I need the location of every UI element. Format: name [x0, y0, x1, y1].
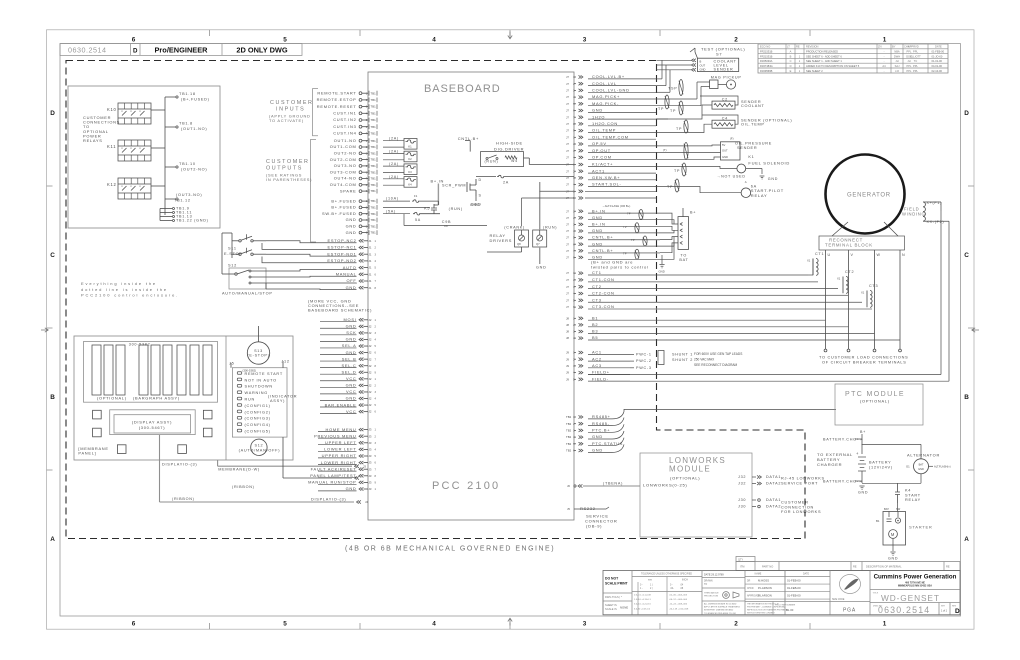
- svg-text:FOR 600V USE GEN TAP LEADS: FOR 600V USE GEN TAP LEADS: [694, 352, 742, 356]
- svg-text:GND: GND: [346, 217, 357, 222]
- svg-text:GND: GND: [659, 270, 665, 274]
- svg-text:OUT4-COM: OUT4-COM: [330, 182, 357, 187]
- baseboard outline: [368, 72, 574, 520]
- svg-text:→ALT.FLASH (OR B+): →ALT.FLASH (OR B+): [602, 204, 630, 208]
- svg-text:JH: JH: [907, 59, 910, 63]
- svg-text:(CONFIG2): (CONFIG2): [245, 410, 271, 414]
- svg-text:AC1: AC1: [592, 350, 602, 355]
- svg-text:.24-1.18 +.010-.008: .24-1.18 +.010-.008: [669, 608, 689, 610]
- svg-text:GND: GND: [722, 155, 728, 159]
- twisted pair TP mag: [665, 95, 669, 109]
- svg-text:SENDER: SENDER: [714, 68, 734, 72]
- wire HOME MENU J3.1: [326, 427, 377, 432]
- svg-text:DWG TOLS | *: DWG TOLS | *: [605, 595, 622, 599]
- svg-text:APPRVD: APPRVD: [908, 45, 919, 49]
- svg-text:SEE SHEET 1 - ADD SHEET 1: SEE SHEET 1 - ADD SHEET 1: [806, 59, 842, 63]
- wire CUST.IN4 TB1.7: [333, 131, 377, 136]
- svg-text:(INDICATOR: (INDICATOR: [268, 395, 297, 399]
- svg-text:300-5382: 300-5382: [129, 343, 151, 347]
- svg-text:PPL: PPL: [913, 69, 918, 73]
- svg-text:B: B: [790, 54, 792, 58]
- svg-text:B+: B+: [690, 211, 696, 215]
- svg-text:E-STOP: E-STOP: [224, 252, 243, 256]
- svg-text:SCK: SCK: [346, 330, 356, 335]
- svg-text:SHUTDOWN: SHUTDOWN: [245, 385, 273, 389]
- svg-text:0 -: 0 -: [640, 585, 643, 587]
- wire PREVIOUS MENU J3.2: [314, 433, 376, 438]
- svg-text:SCR_PWM: SCR_PWM: [442, 184, 466, 188]
- wire SW.B+.FUSED TB1.3: [322, 211, 377, 216]
- svg-text:RJ-45 LONWORKS: RJ-45 LONWORKS: [781, 477, 825, 481]
- svg-text:TP: TP: [658, 107, 664, 111]
- svg-text:B+: B+: [860, 430, 866, 434]
- svg-text:TB1: TB1: [371, 111, 377, 115]
- svg-text:J3: J3: [369, 428, 372, 432]
- svg-text:ESTOP-NC1: ESTOP-NC1: [328, 245, 357, 250]
- svg-text:MAG.PICK-: MAG.PICK-: [592, 101, 619, 106]
- svg-text:GND: GND: [918, 467, 924, 471]
- svg-text:REMOTE START: REMOTE START: [245, 372, 283, 376]
- wires coolant rows to sender: [656, 60, 670, 92]
- svg-text:(2A): (2A): [389, 175, 399, 179]
- svg-text:TC: TC: [914, 59, 918, 63]
- sheet inner border: [60, 44, 961, 616]
- wire relay bus: [151, 97, 176, 221]
- wire CT3-CON J7.6: [566, 304, 615, 309]
- svg-text:K4: K4: [408, 183, 412, 187]
- svg-text:TB1: TB1: [371, 118, 377, 122]
- svg-text:(10A): (10A): [386, 197, 399, 201]
- svg-text:J2: J2: [369, 403, 372, 407]
- svg-text:PTC MODULE: PTC MODULE: [845, 391, 905, 398]
- wire MANUAL J1.6: [336, 272, 377, 277]
- svg-text:X1: X1: [807, 259, 811, 263]
- drawing number header box: [60, 44, 302, 56]
- svg-text:1H2O: 1H2O: [592, 114, 605, 119]
- svg-text:REVISION: REVISION: [806, 45, 819, 49]
- bargraph assembly box: [84, 342, 218, 403]
- svg-text:J7: J7: [566, 196, 569, 200]
- relay K11: [107, 140, 151, 161]
- svg-text:J2: J2: [369, 410, 372, 414]
- svg-text:OIL.TEMP: OIL.TEMP: [592, 128, 616, 133]
- svg-text:SPARE: SPARE: [340, 188, 357, 193]
- svg-text:TB1.10: TB1.10: [179, 162, 196, 166]
- wires mag pickup: [656, 82, 710, 106]
- svg-text:B1: B1: [592, 315, 598, 320]
- svg-text:J4: J4: [365, 500, 368, 504]
- twisted pair TP k1: [682, 163, 686, 176]
- lonworks J30 data pins: [738, 498, 821, 514]
- wire GEN.XW.B+ J7.3: [566, 175, 656, 180]
- svg-text:4: 4: [432, 620, 436, 627]
- svg-text:PPL: PPL: [907, 50, 912, 54]
- svg-text:GND: GND: [346, 396, 357, 401]
- svg-text:J9: J9: [566, 364, 569, 368]
- svg-text:GND: GND: [592, 448, 603, 453]
- svg-text:CUST.IN2: CUST.IN2: [333, 117, 356, 122]
- svg-text:TB1: TB1: [371, 91, 377, 95]
- zone numbers top: [132, 36, 887, 43]
- svg-text:GND: GND: [858, 491, 868, 495]
- wire REMOTE.START TB1.1: [317, 90, 377, 95]
- svg-text:TB1.22 (GND): TB1.22 (GND): [176, 219, 209, 223]
- shunt links: [658, 351, 693, 365]
- svg-text:dotted line is inside the: dotted line is inside the: [81, 287, 168, 292]
- svg-text:DATA1: DATA1: [766, 498, 781, 502]
- wire PANEL LAMP/TEST J3.8: [310, 473, 376, 478]
- svg-text:6: 6: [132, 36, 136, 43]
- revision table: [758, 44, 948, 73]
- svg-text:J7: J7: [566, 82, 569, 86]
- svg-text:CT3: CT3: [592, 297, 602, 302]
- wire MAG.PICK+ J7.4: [566, 94, 656, 99]
- svg-text:TB1.12: TB1.12: [174, 199, 191, 203]
- wire AC3 J9.3: [566, 363, 630, 368]
- connector J5 RS232 service: [567, 506, 618, 528]
- svg-text:OF CIRCUIT BREAKER TERMINALS: OF CIRCUIT BREAKER TERMINALS: [822, 360, 907, 364]
- svg-text:DATE: DATE: [803, 573, 809, 576]
- wire GND J2.2: [346, 324, 377, 329]
- svg-text:OUT: OUT: [722, 149, 728, 153]
- svg-text:J7: J7: [566, 89, 569, 93]
- svg-text:SEL.A: SEL.A: [342, 343, 357, 348]
- svg-text:X+(F1): X+(F1): [927, 201, 943, 205]
- labels PWC: [630, 353, 652, 370]
- svg-text:(CONFIG1): (CONFIG1): [245, 404, 271, 408]
- svg-text:B2: B2: [592, 322, 598, 327]
- signatures cell: [745, 571, 870, 615]
- svg-text:WD-GENSET: WD-GENSET: [881, 593, 940, 603]
- wire estop feed: [221, 233, 223, 274]
- svg-text:TB1: TB1: [371, 125, 377, 129]
- switch S13 E-STOP: [247, 342, 269, 364]
- wire B+.IN J7.1: [566, 208, 668, 213]
- svg-text:PPL: PPL: [907, 69, 912, 73]
- svg-text:TP: TP: [676, 127, 682, 131]
- wire pin J7.5: [566, 189, 656, 193]
- fuel solenoid K1: [656, 155, 790, 181]
- svg-text:MAG.PICK+: MAG.PICK+: [592, 94, 620, 99]
- title block: [603, 571, 960, 615]
- svg-text:(BARGRAPH ASSY): (BARGRAPH ASSY): [133, 396, 180, 401]
- svg-text:J7: J7: [566, 102, 569, 106]
- svg-text:GND: GND: [346, 350, 357, 355]
- svg-text:THIRD ANGLE: THIRD ANGLE: [704, 592, 719, 595]
- svg-text:SAJ: SAJ: [895, 64, 900, 68]
- svg-text:WARNING: WARNING: [245, 391, 268, 395]
- wire SEL.D J2.9: [342, 369, 377, 374]
- wires TB2 bundle to PTC module: [612, 409, 836, 452]
- svg-text:V: V: [851, 253, 854, 257]
- svg-text:.04-: .04-: [670, 588, 674, 590]
- svg-text:J32: J32: [738, 475, 746, 479]
- wire UPPER RIGHT J3.5: [322, 453, 377, 458]
- note: everything inside dotted line: [81, 281, 179, 298]
- svg-text:RS232: RS232: [580, 506, 596, 511]
- svg-text:K4: K4: [905, 489, 911, 493]
- svg-text:DRAWN: DRAWN: [704, 580, 713, 583]
- svg-text:(CONFIG5): (CONFIG5): [245, 430, 271, 434]
- svg-text:A: A: [964, 536, 969, 543]
- svg-text:250 VAC MAX: 250 VAC MAX: [694, 357, 715, 361]
- svg-text:SEL.C: SEL.C: [342, 363, 357, 368]
- wire OP.COM J7.13: [566, 155, 656, 160]
- svg-text:PWC-3: PWC-3: [636, 366, 652, 370]
- svg-text:OUT3-NO: OUT3-NO: [334, 163, 357, 168]
- svg-text:TO CUSTOMER LOAD CONNECTIONS: TO CUSTOMER LOAD CONNECTIONS: [819, 356, 908, 360]
- svg-text:LOWER RIGHT: LOWER RIGHT: [321, 460, 357, 465]
- svg-text:NBA: NBA: [894, 50, 900, 54]
- svg-text:N: N: [902, 253, 905, 257]
- svg-text:J7: J7: [566, 285, 569, 289]
- svg-text:1 |: 1 |: [650, 585, 653, 587]
- svg-text:GND: GND: [346, 383, 357, 388]
- svg-text:Q7: Q7: [536, 242, 540, 246]
- svg-text:(E-STOP): (E-STOP): [247, 353, 269, 357]
- wire GND J7.6: [566, 241, 668, 246]
- lonworks J22 data pins: [738, 475, 825, 486]
- wire ESTOP-NC1 J1.2: [328, 245, 377, 250]
- svg-text:-: -: [884, 51, 885, 54]
- wire SEL.B J2.7: [342, 356, 377, 361]
- svg-text:TOLERANCES PER ASME Y14.5M: TOLERANCES PER ASME Y14.5M: [704, 612, 736, 615]
- wires membrane to baseboard: [160, 326, 369, 504]
- wire COOL.LVL.B+ J7.1: [566, 74, 656, 79]
- svg-text:(2A): (2A): [389, 137, 399, 141]
- svg-text:Cummins Power Generation: Cummins Power Generation: [874, 574, 957, 581]
- svg-text:J9: J9: [566, 357, 569, 361]
- svg-text:CHARGER: CHARGER: [817, 462, 842, 467]
- svg-text:E: E: [790, 69, 792, 73]
- svg-text:J9: J9: [566, 377, 569, 381]
- svg-text:TB1: TB1: [371, 199, 377, 203]
- svg-text:01-01-00: 01-01-00: [932, 59, 943, 63]
- svg-text:(RIBBON): (RIBBON): [232, 485, 255, 489]
- wire REMOTE.RESET TB1.3: [317, 104, 377, 109]
- svg-text:NAME: NAME: [755, 573, 762, 576]
- zone numbers bottom: [132, 620, 887, 627]
- svg-text:PPL: PPL: [913, 50, 918, 54]
- svg-text:X1: X1: [861, 291, 865, 295]
- svg-text:DIG.DRIVER: DIG.DRIVER: [494, 147, 524, 152]
- svg-text:VCC: VCC: [346, 389, 356, 394]
- svg-text:OUT2-COM: OUT2-COM: [330, 157, 357, 162]
- svg-text:GND: GND: [888, 557, 898, 561]
- svg-text:TERMINAL BLOCK: TERMINAL BLOCK: [825, 243, 873, 248]
- wire OUT4-NO TB1.7: [334, 176, 377, 181]
- svg-text:K11: K11: [107, 144, 116, 149]
- svg-text:J7: J7: [566, 223, 569, 227]
- wire GND J2.6: [346, 350, 377, 355]
- svg-text:02-10-00: 02-10-00: [932, 69, 943, 73]
- svg-text:TB1: TB1: [371, 224, 377, 228]
- svg-text:J30: J30: [738, 498, 746, 502]
- svg-text:CUST.IN4: CUST.IN4: [333, 131, 356, 136]
- svg-text:SENDER: SENDER: [737, 146, 757, 150]
- wire SEL.C J2.8: [342, 363, 377, 368]
- svg-text:TP: TP: [667, 185, 673, 189]
- svg-text:J8: J8: [566, 316, 569, 320]
- svg-text:W4: W4: [511, 159, 518, 163]
- svg-text:PPL: PPL: [913, 64, 918, 68]
- svg-text:J3: J3: [363, 464, 366, 468]
- wire SCK J2.3: [346, 330, 376, 335]
- coolant level sender U2: [657, 58, 739, 71]
- svg-text:SEE SHEET 2: SEE SHEET 2: [806, 69, 823, 73]
- svg-text:DATA2: DATA2: [766, 505, 781, 509]
- wire GND TB1.5: [346, 224, 377, 229]
- svg-text:MAG PICKUP: MAG PICKUP: [711, 76, 742, 80]
- svg-text:TB1: TB1: [371, 206, 377, 210]
- svg-text:.02-.06 +.004-.003: .02-.06 +.004-.003: [669, 595, 688, 597]
- svg-text:MODULE: MODULE: [669, 465, 711, 474]
- svg-text:J7: J7: [566, 122, 569, 126]
- svg-text:ESTOP-NO1: ESTOP-NO1: [327, 251, 356, 256]
- svg-text:CNTL.B+: CNTL.B+: [592, 248, 613, 253]
- svg-text:RS485-: RS485-: [592, 421, 610, 426]
- wire OUT2-COM TB1.4: [330, 157, 377, 162]
- svg-text:J1: J1: [369, 239, 372, 243]
- svg-text:J2: J2: [369, 357, 372, 361]
- svg-text:K1: K1: [748, 155, 754, 159]
- svg-text:BAT: BAT: [679, 258, 688, 262]
- svg-text:CONNECTION: CONNECTION: [781, 505, 814, 509]
- customer inputs bracket: [313, 89, 319, 136]
- svg-text:J3: J3: [369, 454, 372, 458]
- battery B1: [855, 451, 893, 495]
- svg-text:C: C: [50, 252, 55, 259]
- svg-text:J7: J7: [566, 229, 569, 233]
- date / projection cell: [702, 574, 745, 615]
- wire CT2 J7.3: [566, 284, 602, 289]
- svg-text:(OUT2-NO): (OUT2-NO): [181, 168, 207, 172]
- starter motor: [876, 503, 933, 561]
- svg-text:SEE RECONNECT DIAGRAM: SEE RECONNECT DIAGRAM: [694, 363, 738, 367]
- wire LOWER LEFT J3.4: [324, 447, 376, 452]
- svg-text:D: D: [50, 110, 55, 117]
- svg-text:GND: GND: [592, 434, 603, 439]
- wire ESTOP-NO2 J1.4: [327, 258, 376, 263]
- svg-text:ADDED K10 TO DESCRIPTION ON SH: ADDED K10 TO DESCRIPTION ON SHEET 5: [806, 64, 860, 68]
- svg-text:J7: J7: [566, 183, 569, 187]
- svg-text:BASEBOARD SCHEMATIC): BASEBOARD SCHEMATIC): [308, 307, 372, 312]
- svg-text:TEST (OPTIONAL): TEST (OPTIONAL): [701, 47, 745, 52]
- svg-text:(OPTIONAL): (OPTIONAL): [97, 396, 127, 401]
- svg-text:01-FEB-00: 01-FEB-00: [787, 579, 801, 583]
- sender C2 coolant temp: [656, 96, 765, 119]
- svg-text:GND: GND: [536, 266, 547, 270]
- svg-text:GEN.XW.B+: GEN.XW.B+: [592, 175, 620, 180]
- wire GND J2.11: [346, 383, 377, 388]
- svg-text:(CONFIG4): (CONFIG4): [245, 423, 271, 427]
- svg-text:GND: GND: [592, 108, 603, 113]
- svg-text:(DB-9): (DB-9): [586, 523, 602, 528]
- field winding: [902, 201, 949, 224]
- svg-text:→NOT USED: →NOT USED: [717, 174, 746, 178]
- svg-text:J2: J2: [369, 364, 372, 368]
- wire FIELD- J9.5: [566, 376, 630, 381]
- wire OUT1-COM TB1.2: [330, 144, 377, 149]
- svg-text:2: 2: [734, 620, 738, 627]
- twisted pair TP c2: [679, 101, 683, 115]
- svg-text:REPRODUCTION OR TRANSFER PROHI: REPRODUCTION OR TRANSFER PROHIBITED: [747, 609, 789, 612]
- svg-text:OUTPUTS: OUTPUTS: [266, 166, 303, 172]
- svg-text:AUTO: AUTO: [343, 265, 357, 270]
- wire GND TB2.4: [566, 434, 612, 439]
- svg-text:J2: J2: [369, 397, 372, 401]
- twisted pair TP c4: [684, 120, 688, 133]
- svg-text:A: A: [790, 50, 792, 54]
- svg-text:F1: F1: [414, 194, 418, 198]
- svg-text:BAT: BAT: [884, 507, 889, 511]
- svg-text:3: 3: [583, 36, 587, 43]
- svg-text:XX-(F2): XX-(F2): [927, 220, 945, 224]
- svg-text:J30: J30: [738, 505, 746, 509]
- svg-text:WITHOUT WRITTEN CONSENT: WITHOUT WRITTEN CONSENT: [747, 613, 776, 615]
- switch S12 AUTO/MANUAL/STOP: [222, 264, 357, 296]
- svg-text:PCC 2100: PCC 2100: [432, 480, 500, 492]
- svg-text:CUSTOMER: CUSTOMER: [270, 100, 314, 106]
- svg-text:ALTERNATOR: ALTERNATOR: [907, 453, 940, 458]
- svg-text:LONWORKS(0-25): LONWORKS(0-25): [643, 483, 687, 488]
- svg-text:PTC.B+: PTC.B+: [592, 428, 610, 433]
- membrane panel outline: [74, 336, 293, 460]
- wire K1/ACT+ J7.1: [566, 162, 656, 167]
- svg-text:J5: J5: [229, 362, 235, 366]
- terminals TB1.9 TB1.11 TB1.13 TB1.22: [173, 207, 209, 223]
- wire RS485+ TB2.1: [566, 414, 612, 419]
- svg-text:SIZE CODE: SIZE CODE: [832, 599, 845, 601]
- svg-text:Everything inside the: Everything inside the: [81, 281, 157, 286]
- svg-text:CT3: CT3: [869, 284, 878, 288]
- svg-text:TB1: TB1: [371, 98, 377, 102]
- svg-text:Q8: Q8: [517, 242, 521, 246]
- svg-text:DATE 29.12.9769: DATE 29.12.9769: [704, 574, 724, 577]
- svg-text:J3: J3: [369, 467, 372, 471]
- svg-text:J3: J3: [369, 487, 372, 491]
- svg-text:TO: TO: [704, 584, 707, 586]
- top border arrow: [508, 32, 512, 39]
- svg-text:PREVIOUS MENU: PREVIOUS MENU: [314, 433, 356, 438]
- svg-text:0630.2514: 0630.2514: [68, 45, 106, 54]
- membrane buttons: [93, 410, 212, 453]
- svg-text:Pro/ENGINEER: Pro/ENGINEER: [155, 46, 209, 55]
- svg-text:J7: J7: [566, 115, 569, 119]
- svg-text:TB2: TB2: [566, 449, 572, 453]
- svg-text:J2: J2: [369, 338, 372, 342]
- svg-text:NONE: NONE: [620, 606, 628, 610]
- svg-text:RE: RE: [946, 565, 950, 569]
- svg-text:J8: J8: [566, 336, 569, 340]
- svg-text:B1: B1: [876, 519, 880, 523]
- svg-text:DRIVERS: DRIVERS: [490, 238, 513, 243]
- wire AC1 J9.1: [566, 350, 630, 355]
- wire MAG.PICK- J7.5: [566, 101, 656, 106]
- customer outputs bracket: [311, 140, 317, 243]
- svg-text:RELAY: RELAY: [751, 193, 768, 198]
- svg-text:OUT3-COM: OUT3-COM: [330, 169, 357, 174]
- dashed control-enclosure boundary: [66, 61, 805, 539]
- svg-text:FAULT ACK/RESET: FAULT ACK/RESET: [311, 466, 357, 471]
- parts list strip: [736, 557, 960, 571]
- svg-text:OUT4-NO: OUT4-NO: [334, 176, 357, 181]
- svg-text:(300-5467): (300-5467): [139, 425, 165, 430]
- wires CT bus: [588, 275, 872, 309]
- note 600V gen tap: [694, 352, 742, 367]
- svg-text:OIL.TEMP: OIL.TEMP: [741, 122, 765, 126]
- wire OIL.TEMP.COM J7.10: [566, 134, 656, 139]
